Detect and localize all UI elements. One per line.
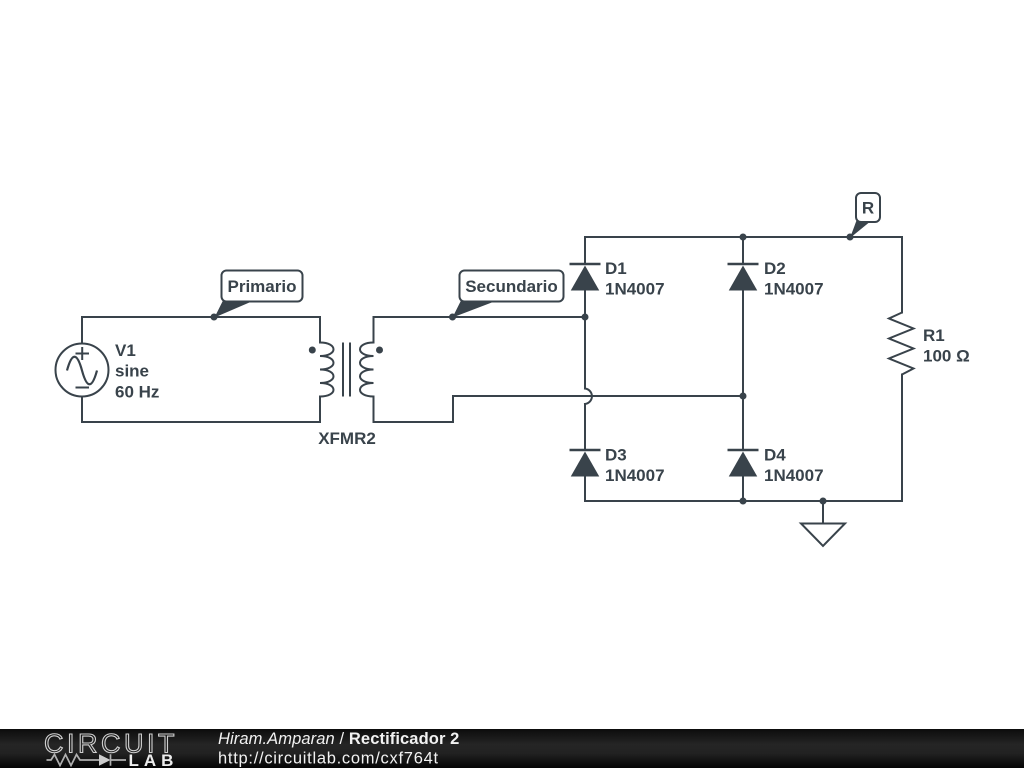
flag R bbox=[850, 193, 880, 238]
svg-text:D4: D4 bbox=[764, 446, 786, 465]
wire hop to D3 bbox=[584, 404, 586, 450]
wire hop over bbox=[585, 389, 592, 405]
wire D2 cathode up bbox=[742, 237, 744, 264]
node mid rail D4 junction bbox=[740, 393, 747, 400]
svg-text:Hiram.Amparan / Rectificador 2: Hiram.Amparan / Rectificador 2 bbox=[218, 730, 459, 748]
svg-text:XFMR2: XFMR2 bbox=[318, 429, 376, 448]
node Primario dot bbox=[211, 314, 218, 321]
node Secundario dot bbox=[449, 314, 456, 321]
D2 labels bbox=[764, 259, 824, 299]
svg-text:1N4007: 1N4007 bbox=[764, 280, 824, 299]
D1 labels bbox=[605, 259, 665, 299]
svg-text:60 Hz: 60 Hz bbox=[115, 382, 159, 401]
wire bridge top rail bbox=[585, 236, 902, 238]
wire D4 to bottom rail bbox=[742, 477, 744, 502]
node bottom rail D4 junction bbox=[740, 498, 747, 505]
R1 labels bbox=[923, 326, 970, 366]
svg-text:sine: sine bbox=[115, 362, 149, 381]
diode D2 bbox=[728, 264, 759, 291]
svg-text:R: R bbox=[862, 199, 874, 218]
diode D3 bbox=[570, 450, 601, 477]
D4 labels bbox=[764, 446, 824, 486]
svg-text:Secundario: Secundario bbox=[465, 277, 558, 296]
svg-text:R1: R1 bbox=[923, 326, 945, 345]
CircuitLab logo bbox=[44, 728, 178, 768]
flag Primario bbox=[215, 271, 303, 318]
wire primary right upper bbox=[319, 317, 321, 343]
wire primary left (source bottom) bbox=[81, 397, 83, 423]
node ground junction bbox=[820, 498, 827, 505]
wire primary left (source top) bbox=[81, 317, 83, 344]
svg-text:D3: D3 bbox=[605, 446, 627, 465]
voltage source V1 bbox=[56, 344, 109, 397]
svg-text:1N4007: 1N4007 bbox=[605, 466, 665, 485]
svg-text:LAB: LAB bbox=[129, 751, 179, 768]
D3 labels bbox=[605, 446, 665, 486]
XFMR2 polarity dot right bbox=[376, 347, 383, 354]
svg-text:V1: V1 bbox=[115, 341, 136, 360]
wire secondary upper bbox=[373, 317, 375, 343]
svg-text:D1: D1 bbox=[605, 259, 627, 278]
wire node to D4 bbox=[742, 396, 744, 450]
diode D4 bbox=[728, 450, 759, 477]
ground bbox=[801, 524, 845, 547]
svg-text:1N4007: 1N4007 bbox=[605, 280, 665, 299]
wire D2 anode down bbox=[742, 291, 744, 397]
wire primary top rail bbox=[82, 316, 320, 318]
wire node to hop bbox=[584, 317, 586, 389]
wire secondary bottom with step bbox=[374, 396, 744, 422]
wire right vertical upper bbox=[901, 237, 903, 313]
resistor R1 bbox=[889, 313, 914, 375]
wire secondary lower bbox=[373, 397, 375, 423]
transformer XFMR2 bbox=[320, 343, 374, 397]
wire ground stem bbox=[822, 501, 824, 524]
wire right vertical lower bbox=[901, 375, 903, 502]
footer bar bbox=[0, 729, 1024, 768]
wire secondary top rail bbox=[374, 316, 586, 318]
node secondary-bridge junction bbox=[582, 314, 589, 321]
flag Secundario bbox=[453, 271, 564, 318]
XFMR2 polarity dot left bbox=[309, 347, 316, 354]
wire bottom rail bbox=[585, 500, 902, 502]
svg-text:100 Ω: 100 Ω bbox=[923, 347, 970, 366]
node R flag junction bbox=[847, 234, 854, 241]
V1 value labels bbox=[115, 341, 159, 401]
wire primary bottom rail bbox=[82, 421, 320, 423]
svg-text:Primario: Primario bbox=[228, 277, 297, 296]
node top rail D2 junction bbox=[740, 234, 747, 241]
svg-text:1N4007: 1N4007 bbox=[764, 466, 824, 485]
wire D3 to bottom rail bbox=[584, 477, 586, 502]
wire primary right lower bbox=[319, 397, 321, 423]
wire D1 anode down bbox=[584, 291, 586, 318]
wire D1 cathode up bbox=[584, 237, 586, 264]
svg-text:http://circuitlab.com/cxf764t: http://circuitlab.com/cxf764t bbox=[218, 750, 439, 768]
svg-text:D2: D2 bbox=[764, 259, 786, 278]
diode D1 bbox=[570, 264, 601, 291]
